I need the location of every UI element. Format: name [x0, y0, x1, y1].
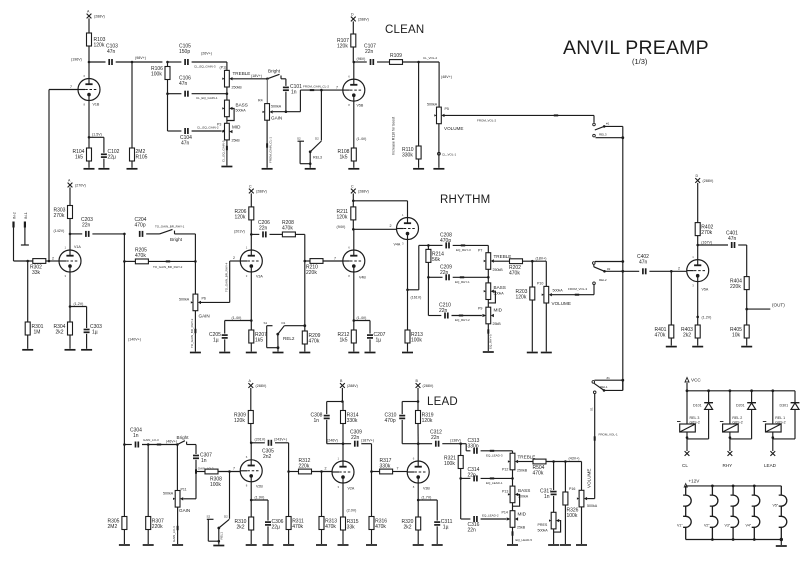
- svg-text:BASS: BASS: [518, 488, 530, 493]
- capacitor C103 47n: [106, 44, 118, 66]
- svg-text:2: 2: [52, 257, 54, 261]
- svg-text:IN-1: IN-1: [24, 212, 28, 219]
- wire P3 bottom to ground with tag CL_EQ_GAIN-5: [222, 140, 228, 166]
- capacitor C304 1n: [123, 428, 177, 448]
- svg-text:R105: R105: [136, 155, 148, 161]
- svg-text:100k: 100k: [411, 338, 422, 344]
- svg-text:V1": V1": [677, 524, 683, 528]
- wire to node 98V: [116, 56, 169, 64]
- svg-text:470k: 470k: [375, 524, 386, 530]
- svg-text:P11: P11: [181, 488, 187, 492]
- svg-text:7: 7: [233, 467, 235, 471]
- svg-text:VOLUME: VOLUME: [552, 301, 571, 306]
- ground under REL3: [305, 168, 316, 170]
- resistor R405 10k: [730, 325, 749, 346]
- svg-text:D201: D201: [736, 404, 745, 408]
- svg-text:CL_VOL-1: CL_VOL-1: [442, 152, 457, 156]
- ground under R313: [316, 544, 327, 546]
- resistor R214 56k: [426, 245, 444, 277]
- capacitor C206 22n: [251, 220, 282, 237]
- resistor R321 100k: [444, 444, 463, 480]
- svg-text:500kA: 500kA: [538, 529, 549, 533]
- svg-text:470k: 470k: [509, 270, 520, 276]
- svg-text:1k5: 1k5: [340, 155, 348, 161]
- svg-text:(288V): (288V): [94, 15, 105, 19]
- svg-text:7: 7: [397, 467, 399, 471]
- svg-text:D2: D2: [315, 137, 319, 141]
- capacitor C305 2n2: [251, 438, 288, 460]
- resistor R308 100k: [196, 467, 240, 489]
- svg-text:CL_VOL-2: CL_VOL-2: [423, 56, 438, 60]
- ground under P14: [507, 544, 518, 546]
- svg-text:500kA: 500kA: [179, 298, 190, 302]
- svg-text:(2.0V): (2.0V): [347, 509, 357, 513]
- svg-text:500kA: 500kA: [518, 495, 529, 499]
- svg-text:1µ: 1µ: [213, 338, 219, 344]
- wire P16 bottom to ground: [581, 507, 583, 544]
- svg-text:G6S-2: G6S-2: [775, 421, 785, 425]
- svg-text:P12: P12: [502, 468, 508, 472]
- relay switch REL1 (signal select, trunk): [592, 376, 624, 394]
- wire P5 bottom to ground, node CL_VOL-1: [438, 124, 457, 168]
- output node CL: [682, 438, 689, 468]
- resistor R209 470k: [302, 326, 320, 352]
- resistor R316 470k: [369, 472, 387, 545]
- svg-text:1k5: 1k5: [255, 338, 263, 344]
- svg-text:V4A: V4A: [394, 243, 401, 247]
- capacitor C303 1u: [70, 307, 102, 349]
- diode D301: [773, 391, 800, 439]
- tube V5A: [687, 255, 712, 325]
- svg-text:22µ: 22µ: [272, 525, 281, 531]
- svg-text:R4: R4: [258, 99, 263, 103]
- svg-text:(18V+): (18V+): [251, 74, 262, 78]
- wire V4A cathode to tone stack: [408, 244, 430, 290]
- node C (288V) above R206: [249, 185, 267, 201]
- heater V4": [746, 486, 760, 540]
- svg-text:REL2: REL2: [283, 336, 295, 341]
- svg-text:CLEAN: CLEAN: [385, 24, 424, 36]
- resistor R211 120k: [337, 200, 356, 231]
- svg-text:7: 7: [334, 256, 336, 260]
- pot P16 VOLUME 500kA (lead volume): [569, 462, 598, 509]
- svg-text:(96V): (96V): [357, 57, 366, 61]
- svg-text:Bright: Bright: [177, 435, 190, 440]
- svg-text:2k2: 2k2: [683, 333, 691, 339]
- svg-text:D: D: [696, 174, 699, 178]
- wire P9 bottom to ground with tag EQ_RHY-5: [487, 324, 492, 351]
- pot P6 GAIN 500kA (rhythm gain): [179, 234, 230, 319]
- wire heater bottom bus: [686, 538, 783, 541]
- pot P9 MID 25kB: [478, 300, 503, 327]
- svg-text:FROM_VOL-2: FROM_VOL-2: [477, 119, 497, 123]
- wire R4 wiper riser to V5B grid: [299, 90, 301, 112]
- resistor R205 470k: [124, 248, 195, 269]
- bright switch (lead): [176, 435, 196, 446]
- resistor R311 470k: [286, 472, 304, 545]
- svg-text:470k: 470k: [282, 226, 293, 232]
- svg-text:EQ_LEAD-2: EQ_LEAD-2: [482, 514, 499, 518]
- tube V3A: [232, 229, 264, 330]
- capacitor C307 1n (lead bright cap): [193, 445, 212, 472]
- ground under C303: [81, 349, 92, 351]
- svg-text:22µ: 22µ: [108, 155, 117, 161]
- svg-text:25kB: 25kB: [232, 139, 241, 143]
- wire clean plate row y=62: [71, 58, 106, 64]
- resistor R107 120k: [337, 27, 356, 62]
- wire gain node with tag GAIN_LO-2: [195, 466, 214, 473]
- diode D101: [687, 391, 713, 439]
- svg-text:V4": V4": [746, 524, 752, 528]
- svg-text:RHY: RHY: [723, 463, 733, 468]
- svg-text:TO_GAIN_BR_RHY-2: TO_GAIN_BR_RHY-2: [153, 265, 183, 269]
- relay coil REL 3 G6S-2 (CL): [677, 391, 700, 439]
- svg-text:22n: 22n: [468, 528, 477, 534]
- svg-text:(1/3): (1/3): [632, 57, 648, 66]
- svg-text:2M2: 2M2: [108, 524, 118, 530]
- ground under P5: [433, 168, 444, 170]
- ground under R209: [299, 352, 310, 354]
- svg-text:470p: 470p: [135, 223, 146, 229]
- svg-text:(288V): (288V): [358, 18, 369, 22]
- svg-text:CL_EQ_GAIN-3: CL_EQ_GAIN-3: [194, 64, 216, 68]
- resistor R104 1k5: [73, 148, 92, 168]
- relay switch REL2 (signal select, trunk): [593, 260, 625, 295]
- capacitor C311 1u: [418, 500, 452, 544]
- ground under R315: [338, 544, 349, 546]
- svg-text:P16: P16: [569, 487, 575, 491]
- svg-text:VOLUME: VOLUME: [587, 469, 592, 488]
- wire P16 wiper up to REL1 with tag FROM_VOL-1: [589, 394, 618, 499]
- resistor R203 120k: [516, 261, 535, 351]
- svg-text:Increase R110 for boost: Increase R110 for boost: [392, 117, 396, 155]
- pot P8 BASS 500kA: [484, 269, 506, 303]
- resistor R206 120k: [235, 201, 254, 235]
- svg-text:P7: P7: [478, 249, 482, 253]
- svg-text:REL1: REL1: [220, 532, 224, 540]
- resistor R207 1k5: [249, 330, 267, 352]
- svg-text:(P1): (P1): [220, 66, 227, 70]
- svg-text:(48V+): (48V+): [441, 75, 452, 79]
- svg-text:470k: 470k: [309, 339, 320, 345]
- resistor R317 330k: [372, 458, 407, 474]
- svg-text:2n2: 2n2: [263, 454, 272, 460]
- svg-text:(46V+): (46V+): [166, 439, 177, 443]
- svg-text:S2: S2: [297, 137, 301, 141]
- node A (288V) top left: [87, 10, 105, 27]
- svg-text:ANVIL PREAMP: ANVIL PREAMP: [563, 37, 709, 59]
- svg-text:LEAD: LEAD: [764, 463, 777, 468]
- svg-text:250kB: 250kB: [493, 268, 504, 272]
- svg-text:22n: 22n: [351, 435, 360, 441]
- svg-text:MID: MID: [518, 512, 527, 517]
- svg-text:S1: S1: [589, 407, 593, 411]
- svg-text:#1: #1: [606, 122, 610, 126]
- capacitor C205 1u: [209, 321, 251, 352]
- output node LEAD: [764, 438, 777, 468]
- svg-text:TO_GAIN_BR_RHY-3: TO_GAIN_BR_RHY-3: [190, 318, 194, 348]
- svg-text:330p: 330p: [468, 443, 479, 449]
- ground under R108: [348, 168, 359, 170]
- relay switch REL3 (clean channel mute): [297, 90, 322, 168]
- resistor R307 220k: [146, 445, 164, 545]
- node A (270V): [68, 179, 86, 200]
- svg-text:FROM_GAIN_CL-2: FROM_GAIN_CL-2: [303, 84, 329, 88]
- pot P10 VOLUME 500kA (rhythm volume): [537, 261, 594, 306]
- tube V1A: [54, 229, 84, 322]
- svg-text:1M: 1M: [34, 330, 41, 336]
- svg-text:C: C: [249, 185, 252, 189]
- wire rail to V4B grid / REL2: [303, 234, 306, 327]
- svg-text:270k: 270k: [701, 230, 712, 236]
- svg-text:470k: 470k: [135, 253, 146, 259]
- svg-text:47n: 47n: [181, 141, 190, 147]
- resistor R208 470k: [282, 220, 305, 237]
- ground under R104: [84, 168, 95, 170]
- svg-text:470k: 470k: [325, 524, 336, 530]
- wire trunk to LEAD (140V+): [123, 234, 141, 445]
- pot P7 TREBLE 250kB: [478, 245, 511, 272]
- tube V2A: [327, 438, 356, 517]
- svg-text:2: 2: [325, 467, 327, 471]
- svg-text:GAIN: GAIN: [199, 314, 210, 319]
- svg-text:100k: 100k: [210, 482, 221, 488]
- ground under R401: [666, 346, 677, 348]
- ground under P6: [190, 352, 201, 354]
- ground under P9: [483, 351, 494, 353]
- svg-text:2k2: 2k2: [237, 525, 245, 531]
- pot PRES 500kA: [538, 512, 561, 544]
- svg-text:CL_EQ_GAIN-1: CL_EQ_GAIN-1: [196, 96, 218, 100]
- svg-text:V2": V2": [704, 524, 710, 528]
- svg-text:22n: 22n: [431, 435, 440, 441]
- svg-text:220k: 220k: [152, 524, 163, 530]
- svg-text:(270V): (270V): [75, 184, 86, 188]
- bright switch (clean): [251, 69, 286, 81]
- resistor R314 330k: [341, 402, 359, 444]
- svg-text:1n: 1n: [544, 494, 550, 500]
- ground under C207: [365, 352, 376, 354]
- svg-text:TO_GAIN_BR_RHY-4: TO_GAIN_BR_RHY-4: [224, 262, 228, 292]
- svg-text:(1.4V): (1.4V): [232, 316, 242, 320]
- svg-text:(94V): (94V): [337, 225, 346, 229]
- svg-text:G6S-2: G6S-2: [732, 421, 742, 425]
- svg-text:7: 7: [70, 85, 72, 89]
- resistor R312 220k: [289, 458, 332, 474]
- svg-text:1n: 1n: [291, 90, 297, 96]
- svg-text:(18V+): (18V+): [536, 256, 547, 260]
- capacitor C101 1n (bright cap): [283, 79, 302, 112]
- resistor R301 1M: [25, 261, 43, 349]
- svg-text:LEAD: LEAD: [427, 396, 458, 408]
- svg-text:GAIN_LO-3: GAIN_LO-3: [143, 438, 159, 442]
- svg-text:22n: 22n: [365, 49, 374, 55]
- resistor R103 120k: [87, 27, 106, 63]
- svg-text:Bright: Bright: [268, 69, 281, 74]
- capacitor C313 330p: [461, 438, 513, 458]
- svg-text:1n: 1n: [133, 433, 139, 439]
- wire relay supply bus: [686, 389, 795, 392]
- svg-text:REL 3: REL 3: [690, 416, 700, 420]
- resistor R309 120k: [234, 411, 253, 443]
- svg-text:220k: 220k: [306, 270, 317, 276]
- pot R4 GAIN 500kA (clean gain): [258, 79, 300, 121]
- svg-text:P9: P9: [478, 307, 482, 311]
- svg-text:P6: P6: [202, 297, 206, 301]
- svg-text:EQ_LEAD-3: EQ_LEAD-3: [486, 453, 503, 457]
- svg-text:100k: 100k: [567, 513, 578, 519]
- ground under R403: [692, 346, 703, 348]
- resistor R401 470k: [655, 271, 674, 345]
- svg-text:1µ: 1µ: [92, 330, 98, 336]
- ground under P3: [221, 166, 232, 168]
- svg-text:(43V+): (43V+): [569, 457, 580, 461]
- svg-text:P5: P5: [445, 107, 449, 111]
- svg-text:V5A: V5A: [702, 288, 709, 292]
- svg-text:G6S-2: G6S-2: [690, 421, 700, 425]
- resistor R319 120k: [416, 402, 434, 444]
- svg-text:56k: 56k: [432, 257, 441, 263]
- svg-text:EQ_RHY-5: EQ_RHY-5: [489, 334, 493, 349]
- svg-text:500kA: 500kA: [163, 492, 174, 496]
- ground under C205: [219, 352, 230, 354]
- capacitor C105 150p: [168, 44, 227, 69]
- wire P10 bottom to ground: [545, 303, 547, 352]
- pot P13 BASS 500kA: [502, 470, 530, 506]
- svg-text:(243V+): (243V+): [274, 438, 287, 442]
- ground under R320: [413, 544, 424, 546]
- svg-text:(138V): (138V): [450, 438, 461, 442]
- svg-text:(1.9V): (1.9V): [255, 496, 265, 500]
- resistor R320 2k2: [402, 517, 421, 544]
- ground under C311: [432, 544, 443, 546]
- svg-text:1µ: 1µ: [376, 338, 382, 344]
- svg-text:D: D: [351, 13, 354, 17]
- resistor R110 330k: [402, 62, 421, 168]
- capacitor C308 1n: [311, 400, 344, 444]
- svg-text:500kA: 500kA: [553, 289, 564, 293]
- ground under R326: [560, 544, 571, 546]
- capacitor C309 22n: [343, 429, 372, 446]
- pot P3 MID 25kB: [217, 117, 241, 143]
- ground under R105: [127, 168, 138, 170]
- resistor R213 100k: [405, 330, 423, 352]
- svg-text:100k: 100k: [444, 461, 455, 467]
- svg-text:D101: D101: [693, 404, 702, 408]
- resistor R404 220k: [730, 245, 749, 325]
- pot P2 BASS 500kA: [222, 87, 247, 121]
- tube V2B: [240, 438, 265, 518]
- capacitor C401 47n: [698, 231, 747, 249]
- svg-text:120k: 120k: [235, 215, 246, 221]
- relay coil REL 2 G6S-2 (RHY): [720, 391, 743, 439]
- resistor R315 33k: [341, 517, 359, 544]
- svg-text:2: 2: [390, 224, 392, 228]
- ground under P11: [172, 544, 183, 546]
- wire input node: [14, 260, 33, 263]
- svg-text:FROM_VOL-1: FROM_VOL-1: [599, 433, 619, 437]
- svg-text:25kB: 25kB: [517, 526, 526, 530]
- resistor R326 100k: [563, 462, 579, 545]
- svg-text:(201V): (201V): [234, 229, 245, 233]
- bright switch (rhythm): [155, 225, 195, 242]
- svg-text:120k: 120k: [234, 418, 245, 424]
- resistor R402 270k: [695, 223, 713, 260]
- capacitor C203 22n: [70, 217, 126, 237]
- resistor R303 270k: [54, 199, 73, 234]
- capacitor C314 22n: [461, 467, 513, 485]
- tube V1B: [70, 62, 102, 148]
- svg-text:REL3: REL3: [313, 156, 322, 160]
- svg-text:470k: 470k: [655, 333, 666, 339]
- svg-text:470k: 470k: [292, 524, 303, 530]
- wire V1B grid to input node: [49, 90, 78, 262]
- svg-text:EQ_RHY-2: EQ_RHY-2: [455, 318, 470, 322]
- wire FROM_VOL-2 tag: [477, 114, 558, 122]
- capacitor C306 22u: [251, 500, 283, 544]
- svg-text:22n: 22n: [439, 308, 448, 314]
- svg-text:47n: 47n: [179, 81, 188, 87]
- svg-text:VCC: VCC: [691, 378, 701, 383]
- wire heater top bus: [686, 485, 782, 488]
- svg-text:S2: S2: [207, 515, 211, 519]
- node C (288V) above R211: [351, 185, 369, 201]
- ground under R305: [119, 544, 130, 546]
- svg-text:1k5: 1k5: [340, 338, 348, 344]
- svg-text:V5B: V5B: [357, 104, 364, 108]
- ground under R304: [65, 349, 76, 351]
- svg-text:47n: 47n: [107, 49, 116, 55]
- wire P11 bottom to ground with tag: [172, 507, 178, 544]
- svg-text:2: 2: [233, 256, 235, 260]
- svg-text:47n: 47n: [728, 236, 737, 242]
- svg-text:2: 2: [678, 266, 680, 270]
- resistor R310 2k2: [235, 517, 254, 544]
- output node RHY: [723, 438, 733, 468]
- svg-text:+12V: +12V: [689, 479, 701, 484]
- resistor R106 100k: [151, 62, 170, 94]
- relay switch REL2 (rhythm channel mute): [264, 321, 305, 352]
- ground under P16: [576, 544, 587, 546]
- svg-text:220k: 220k: [730, 284, 741, 290]
- svg-text:22n: 22n: [468, 473, 477, 479]
- svg-text:120k: 120k: [337, 215, 348, 221]
- capacitor C107 22n: [354, 44, 390, 66]
- heater V3": [725, 486, 739, 540]
- resistor R108 1k5: [338, 148, 357, 168]
- svg-text:250kB: 250kB: [517, 469, 528, 473]
- svg-text:GAIN: GAIN: [271, 116, 282, 121]
- svg-text:(1.7V): (1.7V): [422, 496, 432, 500]
- svg-text:47n: 47n: [639, 260, 648, 266]
- ground under P10: [541, 352, 552, 354]
- tube V4B: [343, 229, 367, 330]
- resistor R305 2M2: [108, 445, 127, 545]
- input terminal IN-2: [13, 212, 17, 261]
- capacitor C210 22n: [428, 277, 485, 322]
- svg-text:(1.2V): (1.2V): [74, 302, 84, 306]
- svg-text:FROM_VOL-3: FROM_VOL-3: [568, 287, 588, 291]
- resistor R304 2k2: [54, 322, 73, 349]
- svg-text:GAIN_LO-4: GAIN_LO-4: [172, 526, 176, 542]
- resistor R403 2k2: [681, 325, 700, 346]
- svg-text:220k: 220k: [299, 464, 310, 470]
- svg-text:EQ_RHY-1: EQ_RHY-1: [455, 280, 470, 284]
- svg-text:(OUT): (OUT): [772, 303, 785, 308]
- svg-text:1n: 1n: [314, 418, 320, 424]
- resistor R105 2M2: [130, 62, 148, 168]
- svg-text:(196V): (196V): [71, 58, 82, 62]
